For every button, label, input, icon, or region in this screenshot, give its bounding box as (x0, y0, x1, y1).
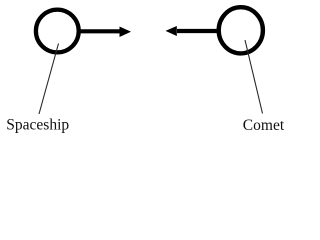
spaceship circle (36, 10, 79, 53)
comet circle (219, 7, 263, 53)
svg-text:Comet: Comet (243, 117, 285, 134)
spaceship velocity arrow (points right) (79, 27, 131, 38)
svg-text:Spaceship: Spaceship (6, 116, 69, 133)
leader line to Spaceship label (39, 44, 59, 115)
comet velocity arrow (points left) (166, 26, 219, 36)
leader line to Comet label (245, 40, 263, 114)
